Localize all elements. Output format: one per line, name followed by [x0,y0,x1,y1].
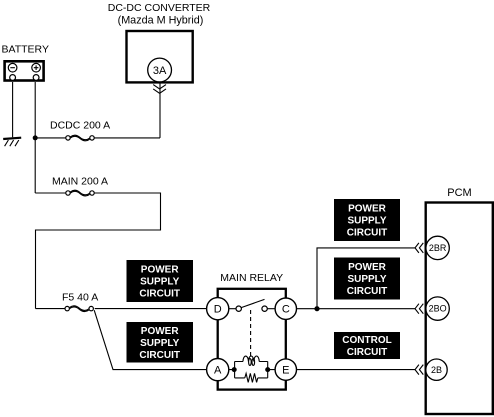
svg-text:2BO: 2BO [429,304,447,314]
svg-text:CIRCUIT: CIRCUIT [347,286,388,297]
svg-text:SUPPLY: SUPPLY [140,338,179,349]
svg-text:CONTROL: CONTROL [342,335,391,346]
svg-text:CIRCUIT: CIRCUIT [139,288,180,299]
svg-text:C: C [282,304,290,316]
svg-text:PCM: PCM [447,187,471,199]
svg-text:F5 40 A: F5 40 A [62,292,98,304]
svg-text:(Mazda M Hybrid): (Mazda M Hybrid) [118,14,204,26]
svg-text:MAIN 200 A: MAIN 200 A [52,176,108,188]
svg-text:E: E [282,365,289,377]
svg-text:POWER: POWER [348,262,387,273]
svg-text:CIRCUIT: CIRCUIT [347,227,388,238]
svg-text:DCDC 200 A: DCDC 200 A [50,120,110,132]
svg-text:3A: 3A [153,65,167,77]
svg-text:D: D [214,304,222,316]
svg-text:MAIN RELAY: MAIN RELAY [220,272,283,284]
svg-text:SUPPLY: SUPPLY [347,215,386,226]
svg-text:2B: 2B [431,365,442,375]
svg-text:DC-DC CONVERTER: DC-DC CONVERTER [108,2,211,14]
svg-text:2BR: 2BR [429,243,447,253]
svg-text:POWER: POWER [141,264,180,275]
svg-text:CIRCUIT: CIRCUIT [347,347,388,358]
svg-text:BATTERY: BATTERY [2,44,49,56]
svg-text:A: A [214,365,222,377]
svg-text:POWER: POWER [141,326,180,337]
svg-text:SUPPLY: SUPPLY [140,276,179,287]
svg-text:POWER: POWER [348,203,387,214]
svg-text:CIRCUIT: CIRCUIT [139,350,180,361]
svg-text:SUPPLY: SUPPLY [347,274,386,285]
